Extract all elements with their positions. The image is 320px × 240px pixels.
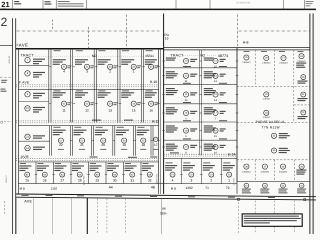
row3 lot cell 2: [96, 127, 103, 128]
AVE label (top): [17, 44, 18, 45]
row1 lot cell 4: [146, 50, 153, 51]
header column dividers: [11, 0, 13, 9]
svg-text:M B: M B: [20, 186, 25, 190]
right col annotation: [296, 63, 306, 68]
right block row5 parcel #4: [299, 183, 304, 188]
condominium note box: [242, 214, 302, 226]
svg-text:3384: 3384: [160, 211, 167, 215]
dotted avenue (third, pair): [16, 158, 159, 160]
below-road dashed lines: [96, 198, 98, 234]
row2 lot cell 4: [146, 90, 153, 91]
row line below F AVE: [18, 88, 158, 90]
right col parcel: [301, 110, 306, 115]
AVE road line, margin stub: [0, 45, 13, 47]
svg-text:17: 17: [154, 143, 158, 147]
svg-text:O: O: [0, 120, 3, 124]
heavy line below road: [86, 198, 88, 234]
svg-text:H-12: H-12: [152, 120, 159, 124]
svg-text:11: 11: [62, 109, 66, 113]
middle block bottom row top line: [164, 157, 237, 159]
middle block right boundary: [236, 48, 238, 194]
row4 lot cell 28: [73, 163, 79, 164]
middle block parcel r5c1: [166, 125, 178, 132]
PVT ST label: [92, 120, 101, 121]
below-road parcel lines (west): [16, 198, 18, 234]
right block row3 parcel B: [271, 148, 276, 153]
parcel 10 (wide col): [25, 106, 30, 111]
svg-text:2.65(AC): 2.65(AC): [262, 62, 271, 65]
left block outer boundary lines: [17, 49, 19, 194]
svg-text:26: 26: [43, 179, 47, 183]
middle block parcel r6c2: [204, 144, 216, 151]
row line: [18, 161, 158, 163]
svg-text:FEET: FEET: [2, 7, 6, 10]
svg-text:32: 32: [148, 179, 152, 183]
right block parcel row1 #4: [299, 54, 304, 59]
parcel 10 annotation: [33, 107, 45, 113]
svg-text:21: 21: [80, 143, 84, 147]
svg-text:12: 12: [85, 109, 89, 113]
svg-text:F AVE: F AVE: [19, 81, 30, 85]
svg-text:BK: BK: [162, 207, 166, 211]
dotted private street (second, pair): [16, 120, 159, 122]
row4 lot cell 26: [38, 163, 44, 164]
dotted private street F AVE (pair): [16, 84, 159, 86]
svg-text:1: 1: [133, 70, 135, 74]
dashed quarter-section vertical (west): [87, 27, 89, 49]
row3 lot cell 5: [154, 137, 158, 141]
parcel 23 annotation: [33, 135, 45, 138]
svg-text:19: 19: [122, 143, 126, 147]
svg-text:25: 25: [25, 179, 29, 183]
svg-text:90TH ST: 90TH ST: [5, 174, 8, 182]
middle block parcel r3c1: [166, 88, 178, 95]
svg-text:AVE: AVE: [21, 155, 30, 159]
svg-text:1110: 1110: [51, 186, 58, 190]
svg-text:2: 2: [1, 15, 8, 29]
left margin tiny label: [1, 80, 7, 83]
row3 lot cell 0: [54, 127, 61, 128]
svg-text:3: 3: [190, 179, 192, 183]
svg-text:POR SE 1/4 SEC 11,: POR SE 1/4 SEC 11,: [256, 120, 286, 124]
row1 lot cell 3: [122, 50, 129, 51]
middle block parcel r1c2: [204, 58, 214, 61]
svg-text:(92ND ST): (92ND ST): [82, 175, 85, 185]
note box tiny text: [244, 216, 301, 224]
svg-text:T7N R11W: T7N R11W: [262, 126, 280, 130]
row line: [18, 125, 158, 127]
row4 lot cell 30: [108, 163, 114, 164]
right block parcel row1 #2: [264, 55, 269, 60]
row1 lot cell 2: [98, 50, 105, 51]
svg-text:71: 71: [205, 186, 209, 190]
right col parcel: [301, 92, 306, 97]
right block row4 parcel #2: [262, 164, 267, 169]
bottom road AVE (double line, slight slope): [16, 194, 316, 197]
section line vertical (center): [163, 14, 165, 194]
right block row5 parcel #3: [281, 183, 286, 188]
dashed stub at left margin (AVE F): [0, 76, 12, 78]
right block row5 parcel #2: [263, 183, 268, 188]
row3 lot cell 1: [74, 127, 81, 128]
middle block parcel r2c1: [166, 71, 178, 78]
header OFFICE cell tiny text: [306, 1, 314, 6]
svg-text:30: 30: [113, 179, 117, 183]
row1 lot cell 0: [54, 50, 61, 51]
right road (double line): [309, 14, 311, 235]
svg-text:90TH ST: 90TH ST: [8, 55, 11, 64]
svg-text:M B: M B: [171, 186, 176, 190]
svg-text:45811: 45811: [145, 54, 154, 58]
parcel 9 annotation: [33, 93, 45, 99]
middle block row lines: [164, 67, 237, 69]
svg-text:87TH ST: 87TH ST: [233, 177, 236, 185]
row2 lot cell 2: [98, 90, 105, 91]
svg-text:2.65(AC): 2.65(AC): [297, 60, 306, 63]
svg-text:29: 29: [95, 179, 99, 183]
parcel 7 (wide col): [25, 57, 30, 62]
svg-text:3: 3: [86, 70, 88, 74]
road dimension tiny labels: [22, 194, 29, 197]
svg-text:TRACT: TRACT: [21, 54, 35, 58]
row2 lot cell 0: [54, 90, 61, 91]
dashed row divider: [237, 122, 310, 124]
svg-text:2.65(AC): 2.65(AC): [242, 61, 251, 64]
right block parcel row1 #3: [281, 55, 286, 60]
right block row1 dashed dividers: [254, 50, 256, 87]
header REVISED cell tiny text: [58, 1, 84, 7]
middle block parcel r5c2: [204, 125, 216, 132]
svg-text:1: 1: [228, 179, 230, 183]
right block parcel row1 #1: [244, 55, 249, 60]
svg-text:NO: NO: [200, 54, 205, 58]
section dashed line (top, west part): [17, 30, 160, 32]
parcel 8 annotation: [33, 72, 45, 78]
svg-text:16: 16: [149, 109, 153, 113]
svg-text:4: 4: [172, 179, 174, 183]
left margin small text block: [1, 89, 7, 92]
row3 lot cell 4: [138, 127, 145, 128]
parcel 8 (wide col): [25, 71, 30, 76]
dashed quarter-section vertical: [125, 15, 127, 49]
svg-text:2.65(AC): 2.65(AC): [242, 171, 251, 174]
bottom row lot 3: [183, 162, 190, 163]
svg-text:44: 44: [109, 186, 113, 190]
right block center parcel: [264, 92, 269, 97]
middle block parcel r6c1: [166, 144, 178, 151]
below-road section line: [161, 199, 163, 235]
right block row4 parcel #4: [299, 164, 304, 169]
svg-text:AVE: AVE: [19, 42, 29, 47]
bottom row lot 2: [203, 162, 210, 163]
parcel 24 (wide col): [25, 145, 30, 150]
svg-text:13: 13: [108, 109, 112, 113]
header TRA cell tiny text: [45, 1, 52, 4]
svg-text:2: 2: [109, 70, 111, 74]
svg-text:G-14: G-14: [228, 152, 236, 156]
svg-text:18: 18: [141, 143, 145, 147]
row2 lot cell 3: [122, 90, 129, 91]
bottom row lot 1: [223, 162, 230, 163]
svg-text:1202: 1202: [186, 186, 193, 190]
svg-text:1.30 AC: 1.30 AC: [263, 116, 271, 119]
dashed row divider: [237, 159, 310, 161]
parcel 7 annotation: [33, 59, 45, 65]
row4 lot cell 27: [55, 163, 61, 164]
row1 lot cell 1: [76, 50, 83, 51]
middle block parcel r2c2: [204, 71, 216, 78]
right block row4 parcel #1: [244, 164, 249, 169]
dashed vertical at east tract edge: [236, 15, 238, 48]
middle block parcel r4c1: [166, 107, 178, 114]
right block row4 dashed dividers: [254, 160, 256, 182]
svg-text:46: 46: [151, 186, 155, 190]
right block row3 parcel A: [271, 133, 276, 138]
row2 lot cell 1: [76, 90, 83, 91]
row4 lot cell 25: [20, 163, 26, 164]
svg-text:31: 31: [130, 179, 134, 183]
middle block dotted pvt st (pair): [164, 153, 237, 155]
svg-text:28: 28: [78, 179, 82, 183]
PVT ST label right: [150, 157, 157, 158]
row 4 bottom line / MB strip top: [18, 183, 237, 185]
svg-text:27: 27: [60, 179, 64, 183]
bottom row lot 4: [166, 162, 173, 163]
solid line above bottom parcel row: [237, 180, 310, 182]
left block row 3 column lines: [49, 126, 51, 156]
parcel 23 (wide col): [25, 134, 30, 139]
svg-text:20: 20: [101, 143, 105, 147]
dashed stub left margin bottom: [4, 201, 6, 216]
AVE road line across (thick west part): [16, 48, 164, 50]
svg-text:1.30 AC: 1.30 AC: [263, 98, 271, 101]
parcel 24 annotation: [33, 147, 45, 150]
svg-text:2: 2: [210, 179, 212, 183]
wide column sub-divider lines: [18, 64, 48, 66]
svg-text:2.65(AC): 2.65(AC): [279, 62, 288, 65]
below-road dashed (east): [237, 199, 239, 235]
PVT ST label middle: [170, 152, 179, 153]
AVE road pair (east part): [164, 47, 310, 49]
svg-text:NO: NO: [92, 54, 97, 58]
right block left boundary: [236, 48, 238, 182]
header P.A. cell tiny text: [14, 1, 21, 4]
dashed row divider: [237, 85, 310, 87]
right block row5 parcel #1: [244, 183, 249, 188]
row3 lot cell 3: [117, 127, 124, 128]
svg-text:19: 19: [165, 37, 169, 41]
middle block parcel r4c2: [204, 107, 216, 114]
middle block column double line: [199, 50, 201, 155]
svg-text:SEARCH NO: SEARCH NO: [236, 2, 250, 5]
middle block bottom row columns: [180, 158, 182, 183]
section dashed line (top, east part): [239, 30, 310, 32]
middle block parcel r1c1: [166, 58, 176, 61]
svg-text:2.65(AC): 2.65(AC): [279, 171, 288, 174]
svg-text:(95TH ST): (95TH ST): [155, 174, 158, 184]
row4 lot cell 31: [125, 163, 131, 164]
row4 lot cell 32: [143, 163, 149, 164]
svg-text:AVE: AVE: [24, 200, 32, 204]
svg-text:15: 15: [132, 109, 136, 113]
svg-text:48774: 48774: [218, 54, 228, 58]
left road 90TH ST W (double line): [12, 18, 14, 234]
PVT ST label left: [90, 157, 98, 158]
left block column double lines (rows 1-2): [48, 49, 50, 123]
header bar background: [0, 0, 316, 10]
svg-text:73: 73: [226, 186, 230, 190]
right block row4 parcel #3: [280, 164, 285, 169]
svg-text:H-10: H-10: [150, 80, 157, 84]
right col parcel: [301, 75, 306, 80]
center parcel 2: [264, 110, 269, 115]
left block row 4 column lines: [35, 162, 37, 184]
survey corner squares: [238, 198, 240, 200]
middle block parcel r3c2: [204, 88, 216, 95]
right col dashed divider: [293, 86, 295, 122]
row4 lot cell 29: [90, 163, 96, 164]
svg-text:TRACT: TRACT: [170, 54, 184, 58]
right col dashed sub-divider: [294, 104, 310, 106]
header bottom border: [0, 8, 316, 10]
svg-text:H-8: H-8: [243, 41, 249, 45]
svg-text:22: 22: [59, 143, 63, 147]
short dashed tick above section line: [51, 20, 53, 31]
right block row1 top tick labels: [244, 50, 250, 53]
svg-text:4: 4: [63, 70, 65, 74]
parcel 9 (wide col): [25, 92, 30, 97]
svg-text:2.65(AC): 2.65(AC): [261, 171, 270, 174]
